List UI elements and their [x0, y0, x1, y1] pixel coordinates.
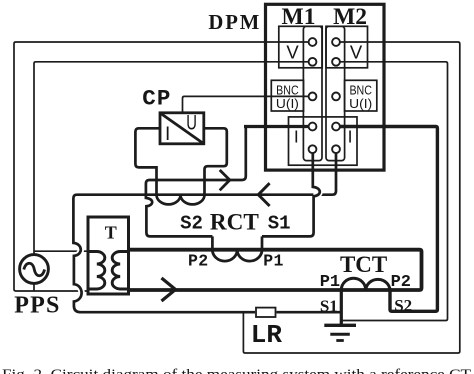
svg-text:P2: P2	[391, 273, 411, 292]
wire PPS top to DPM M1 V terminal 2 (net via x=34)	[34, 62, 309, 255]
wire TCT S1 to ground	[340, 291, 343, 325]
svg-text:I: I	[348, 127, 353, 147]
svg-text:P1: P1	[320, 273, 340, 292]
svg-text:TCT: TCT	[340, 252, 387, 277]
svg-text:RCT: RCT	[210, 210, 259, 236]
wire CP loop right to winding	[204, 128, 227, 194]
svg-text:U: U	[186, 111, 197, 134]
DPM M2 V input box	[326, 26, 368, 68]
DPM M1 terminal strip	[303, 26, 322, 160]
wire crossing hop halo over conductor (right)	[313, 187, 320, 196]
meter DPM box	[266, 4, 385, 170]
DPM I input box	[289, 117, 358, 165]
svg-text:P2: P2	[188, 251, 209, 270]
wire DPM M2 V terminal 2 to ground node	[340, 62, 448, 321]
wire DPM M2 I bottom to LR via left drop (with crossing hops)	[73, 151, 336, 312]
arrow current direction on M2 I wire	[258, 183, 269, 206]
transformer T primary winding	[88, 252, 105, 290]
wire heavy primary current loop T-RCT-TCT	[129, 250, 422, 290]
transformer T box	[88, 217, 129, 294]
svg-text:M2: M2	[333, 4, 367, 30]
svg-text:Fig. 2. Circuit diagram of the: Fig. 2. Circuit diagram of the measuring…	[2, 367, 471, 374]
svg-text:S2: S2	[180, 212, 203, 234]
svg-text:V: V	[286, 42, 299, 63]
svg-text:S1: S1	[268, 212, 291, 234]
DPM M1 V input box	[279, 26, 322, 68]
terminal dots M1	[309, 38, 317, 153]
svg-text:I: I	[294, 127, 299, 147]
svg-text:M1: M1	[282, 4, 316, 30]
transformer TCT secondary winding humps	[341, 278, 390, 290]
wire RCT S1 stub	[261, 236, 264, 249]
wire RCT S1 to DPM M1 I bottom (with crossing hop)	[262, 151, 320, 236]
current probe CP winding around conductor	[157, 195, 205, 205]
converter CP box U/I	[160, 113, 204, 144]
svg-text:V: V	[350, 42, 363, 63]
svg-text:U(I): U(I)	[349, 96, 372, 111]
svg-text:S2: S2	[394, 296, 412, 315]
wire CP output to DPM M1 BNC U(I)	[183, 96, 312, 113]
wire DPM M1 I top terminal lead	[244, 125, 309, 128]
svg-text:LR: LR	[251, 320, 283, 350]
DPM M1 BNC U(I) input box	[271, 80, 303, 111]
ground	[324, 324, 356, 327]
DPM M2 terminal strip	[326, 26, 345, 160]
svg-text:U(I): U(I)	[276, 96, 299, 111]
transformer T secondary winding	[112, 252, 128, 290]
svg-text:I: I	[165, 124, 170, 145]
terminal dots M2	[332, 38, 340, 153]
svg-text:CP: CP	[142, 86, 171, 112]
svg-text:PPS: PPS	[14, 293, 60, 319]
wire RCT S2 to DPM M1 I top (with crossing hop)	[146, 128, 246, 236]
wire TCT S2 to DPM M2 I top	[340, 127, 438, 312]
svg-text:S1: S1	[320, 297, 338, 316]
svg-text:T: T	[105, 223, 117, 243]
wire DPM M2 V terminal 1 to LR left (right outer loop)	[243, 42, 459, 353]
wire PPS bottom to DPM M1 V terminal 1 (net via x=14)	[14, 42, 309, 291]
arrow current direction on bottom heavy wire	[162, 278, 176, 301]
source PPS	[20, 255, 49, 284]
svg-text:DPM: DPM	[208, 12, 261, 34]
DPM M2 BNC U(I) input box	[345, 80, 377, 111]
wire crossing hop halo over PPS wires	[73, 243, 81, 302]
wire LR right side to ground node	[277, 311, 342, 314]
transformer RCT secondary winding humps on bus	[212, 250, 262, 261]
svg-text:P1: P1	[263, 251, 284, 270]
arrow current direction on S2 wire	[220, 170, 230, 190]
resistor LR	[256, 308, 276, 317]
wire PPS bottom stub	[33, 283, 35, 291]
wire CP loop left to winding	[135, 128, 160, 194]
wire RCT S2 stub	[211, 236, 214, 249]
wire PPS top to transformer T primary	[34, 250, 88, 252]
